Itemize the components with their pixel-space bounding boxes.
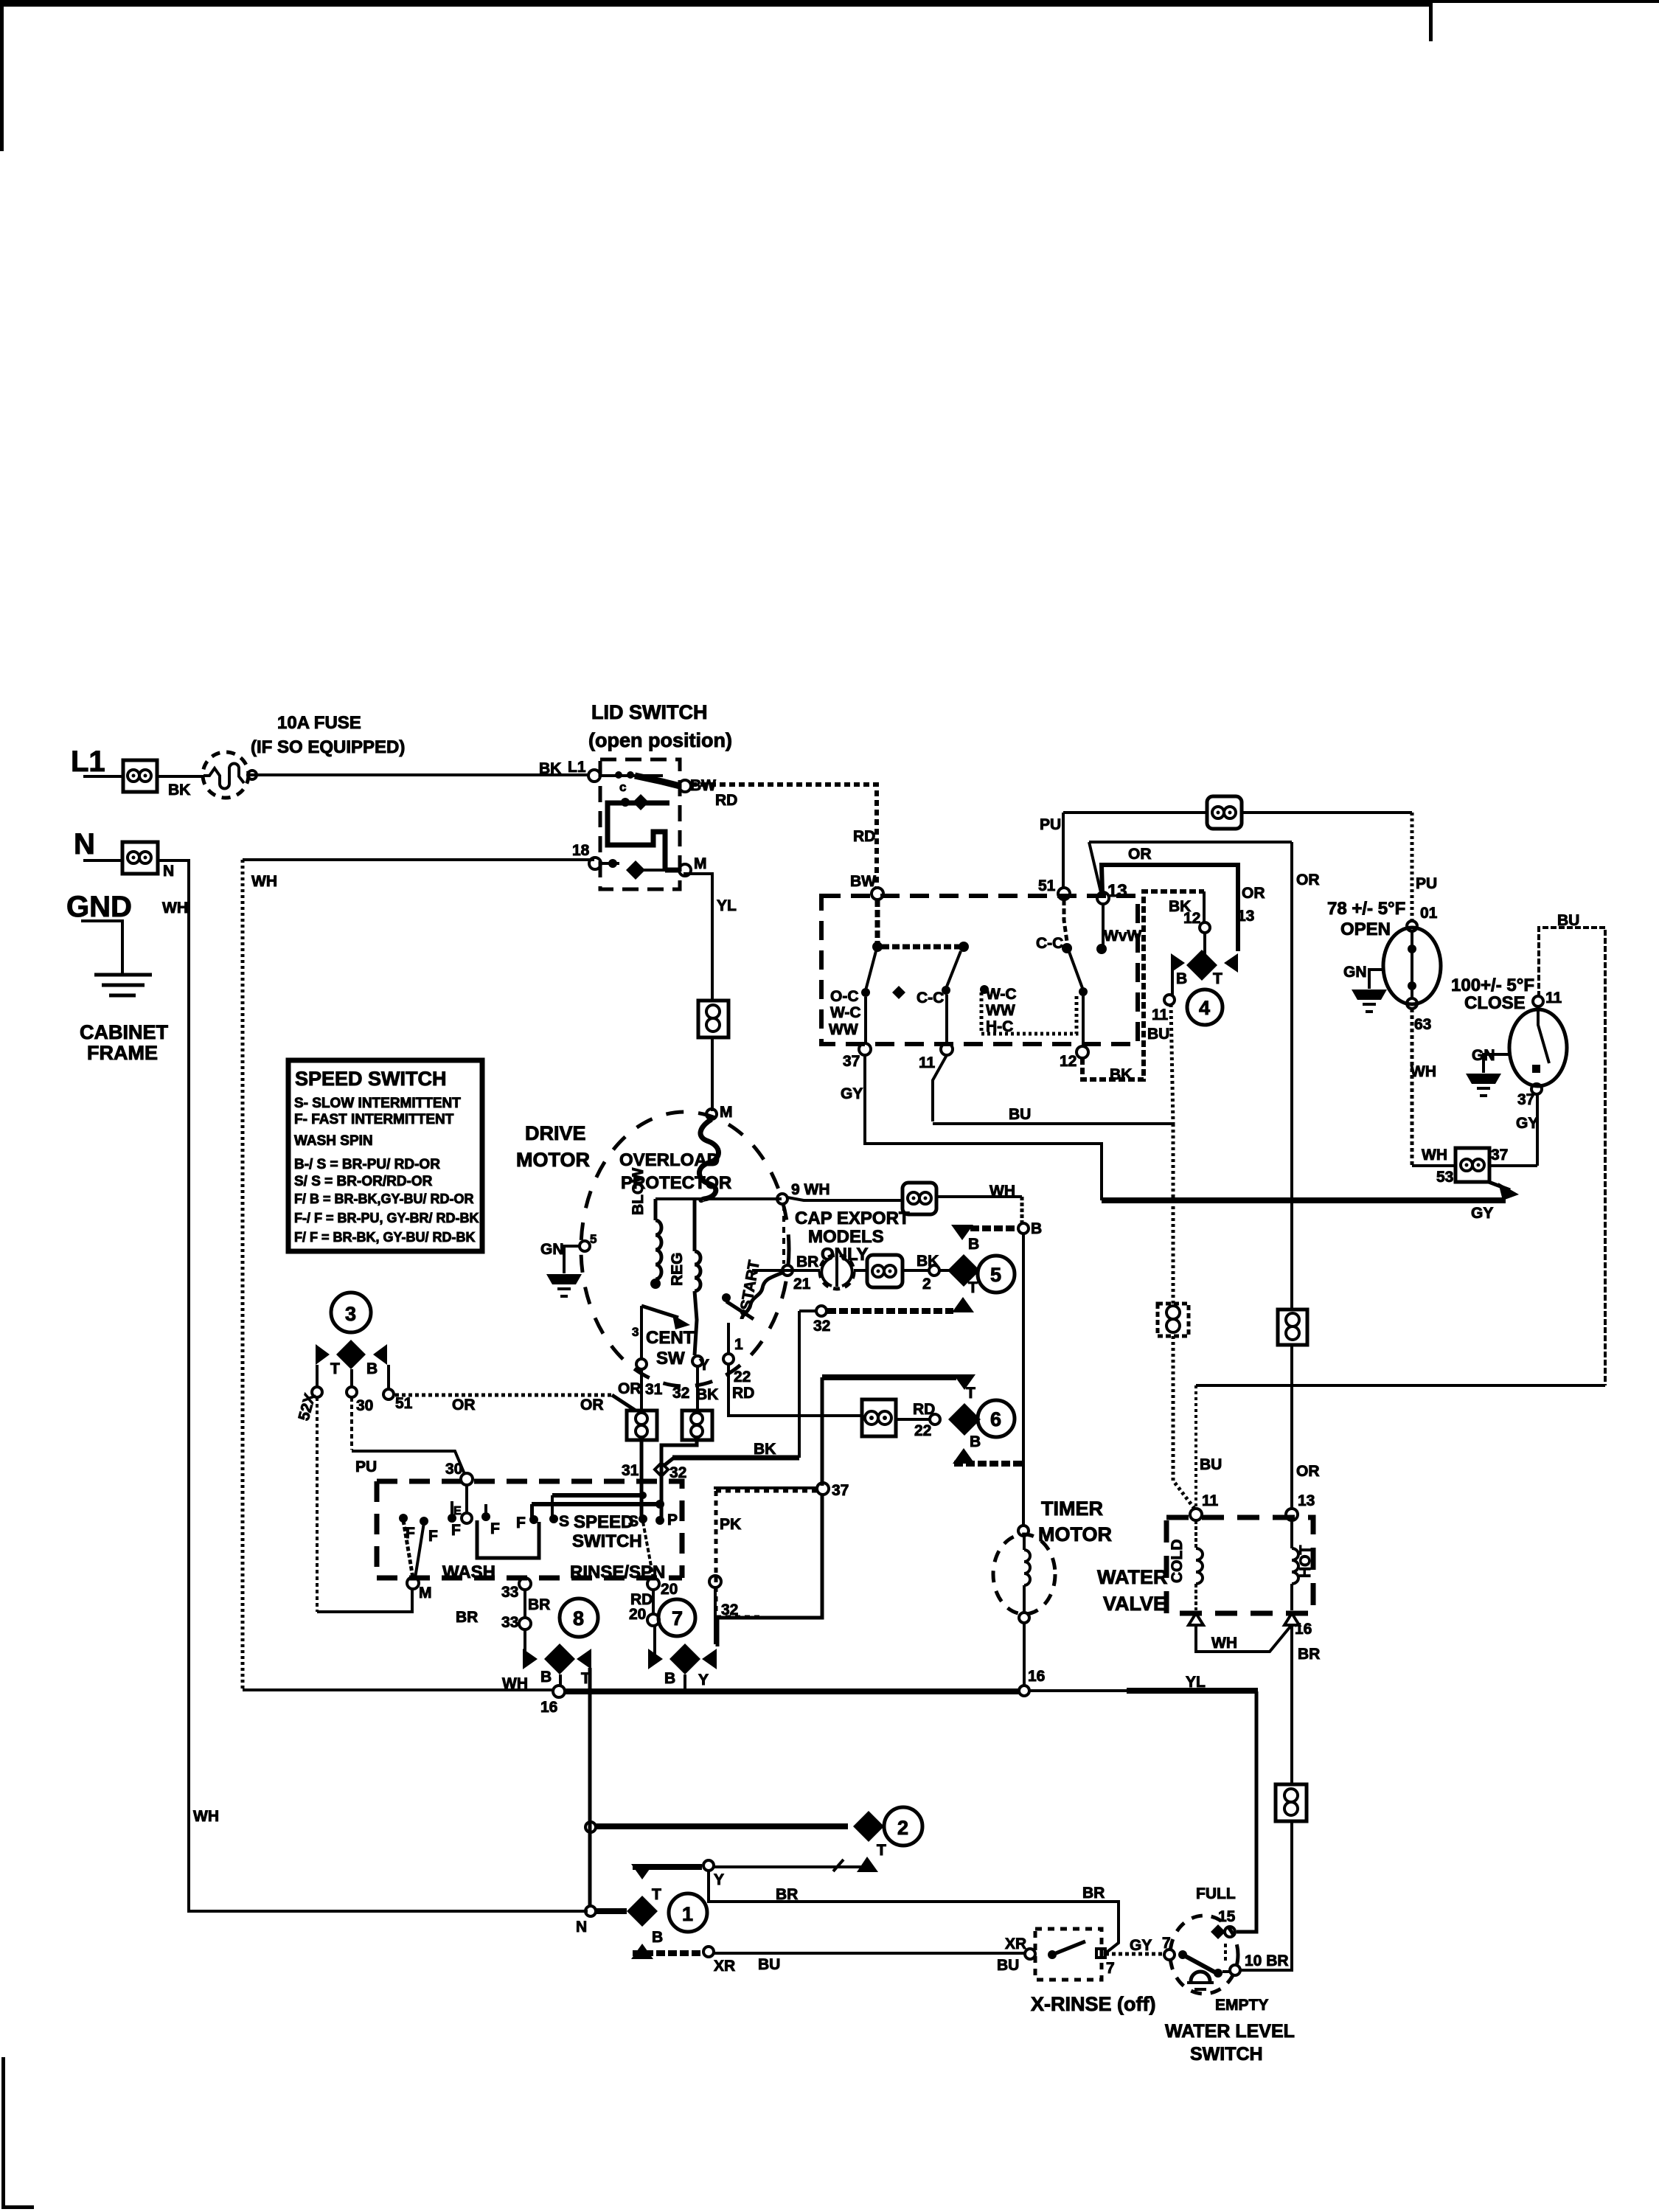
bridge wire xyxy=(477,1520,539,1558)
wire BU solenoid feed xyxy=(1194,1385,1197,1509)
page left border segment xyxy=(0,0,4,151)
svg-text:BU: BU xyxy=(1200,1456,1222,1473)
OR dotted line from diamond 3 xyxy=(395,1394,612,1397)
X-RINSE dashed box xyxy=(1035,1929,1102,1980)
svg-text:F: F xyxy=(451,1522,461,1539)
svg-text:11: 11 xyxy=(919,1054,936,1071)
wire BU dotted vertical xyxy=(1173,1124,1194,1509)
wire L1 lead xyxy=(83,775,123,778)
terminal 16 on bus xyxy=(553,1686,565,1697)
wire GY dotted xyxy=(1105,1952,1165,1956)
svg-text:32: 32 xyxy=(669,1464,686,1481)
connector C8a xyxy=(627,1411,657,1440)
timer motor dashed circle xyxy=(993,1534,1055,1614)
svg-text:GN: GN xyxy=(1343,964,1367,981)
ground for TH1 xyxy=(1369,970,1383,989)
triangle B above diamond 5 xyxy=(951,1225,973,1240)
contact F1 xyxy=(399,1514,408,1523)
svg-text:21: 21 xyxy=(793,1276,811,1293)
svg-text:BU: BU xyxy=(1147,1026,1169,1043)
wire BU horizontal to water valve xyxy=(1196,1384,1605,1387)
svg-text:PU: PU xyxy=(355,1458,377,1475)
svg-text:8: 8 xyxy=(573,1607,584,1630)
svg-text:7: 7 xyxy=(672,1607,683,1630)
svg-text:MOTOR: MOTOR xyxy=(516,1149,590,1171)
svg-text:WvW: WvW xyxy=(1104,928,1142,945)
water valve terminal 11 xyxy=(1190,1509,1202,1520)
svg-text:BK: BK xyxy=(1110,1066,1132,1083)
lid switch lower contact xyxy=(601,862,619,865)
wire bus thin segment xyxy=(1029,1689,1127,1692)
svg-text:GY: GY xyxy=(841,1085,863,1102)
svg-text:BU: BU xyxy=(1557,912,1579,929)
wire BU 11 jog xyxy=(933,1055,1173,1124)
svg-text:10A FUSE: 10A FUSE xyxy=(277,713,361,733)
diamond connector 6 xyxy=(948,1403,981,1436)
svg-text:MOTOR: MOTOR xyxy=(1038,1523,1112,1545)
svg-text:WASH SPIN: WASH SPIN xyxy=(294,1133,373,1149)
terminal 10 BR xyxy=(1230,1965,1240,1975)
wire 33 down xyxy=(524,1590,526,1619)
svg-text:DRIVE: DRIVE xyxy=(525,1122,586,1144)
svg-text:3: 3 xyxy=(345,1303,356,1325)
triangle right of diamond 3 xyxy=(373,1344,387,1365)
svg-text:B: B xyxy=(968,1236,979,1253)
terminal 51 xyxy=(1058,888,1070,900)
wire N to diamond 1 xyxy=(596,1908,627,1914)
svg-text:S: S xyxy=(628,1513,639,1530)
svg-text:E: E xyxy=(453,1505,462,1517)
wire 30 dotted to box edge xyxy=(350,1397,353,1450)
svg-text:15: 15 xyxy=(1218,1908,1236,1925)
page border tick xyxy=(1429,3,1433,41)
svg-text:37: 37 xyxy=(832,1482,849,1499)
svg-text:3: 3 xyxy=(632,1325,639,1339)
connector P7 on RD wire xyxy=(862,1399,896,1436)
open circle terminal at fuse output xyxy=(248,771,257,779)
wire riser diamond6T to 37 xyxy=(821,1377,824,1486)
svg-text:F: F xyxy=(516,1514,526,1531)
svg-text:WATER LEVEL: WATER LEVEL xyxy=(1165,2021,1295,2042)
svg-text:B: B xyxy=(664,1670,675,1687)
wire WH vertical left (N run down) xyxy=(189,859,588,1911)
wire diamond1 B dotted row xyxy=(633,1950,702,1956)
svg-text:COLD: COLD xyxy=(1169,1540,1186,1584)
svg-text:B: B xyxy=(1176,970,1187,987)
svg-text:O-C: O-C xyxy=(830,988,859,1005)
page top border line right thin xyxy=(1431,0,1659,3)
temp switch 51 contact arm xyxy=(1064,900,1068,947)
capacitor C1 dashed circle xyxy=(820,1255,854,1289)
contact F3 xyxy=(481,1512,490,1521)
X-RINSE contact xyxy=(1048,1950,1057,1959)
svg-text:1: 1 xyxy=(734,1336,743,1353)
water temperature switch dashed box xyxy=(821,896,1138,1044)
terminal B xyxy=(1018,1223,1029,1234)
wire BR branch xyxy=(709,1871,1119,1954)
wire YL thick segment xyxy=(1127,1688,1258,1694)
terminal 30 on box edge xyxy=(461,1473,473,1485)
svg-text:51: 51 xyxy=(395,1395,413,1412)
svg-text:12: 12 xyxy=(1060,1053,1077,1070)
triangle T above diamond 6 xyxy=(953,1374,975,1390)
svg-text:WH: WH xyxy=(1411,1063,1436,1080)
svg-text:51: 51 xyxy=(1038,877,1056,894)
wire BU bridge over TH2 xyxy=(1539,928,1605,1385)
svg-text:13: 13 xyxy=(1298,1492,1315,1509)
valve bottom terminal hot xyxy=(1284,1613,1299,1625)
svg-text:OR: OR xyxy=(1128,846,1152,863)
svg-text:T: T xyxy=(330,1360,340,1377)
lid switch terminal 18 xyxy=(589,858,601,869)
svg-text:F: F xyxy=(428,1528,438,1545)
circle 5 xyxy=(978,1256,1015,1293)
connector P1 (L1 terminal) xyxy=(123,760,157,792)
valve bottom terminal cold xyxy=(1189,1613,1203,1625)
svg-text:Y: Y xyxy=(714,1871,724,1888)
wire diamond7 to bus xyxy=(684,1674,686,1692)
wire BU dotted drop xyxy=(1171,1004,1173,1124)
wire GY path from 37 xyxy=(865,1055,1102,1200)
fuse F1 (10A, dashed circle) xyxy=(203,752,248,798)
svg-text:X-RINSE (off): X-RINSE (off) xyxy=(1031,1993,1155,2015)
diamond connector 3 xyxy=(336,1340,366,1369)
svg-text:FULL: FULL xyxy=(1196,1885,1236,1902)
thick line to diamond6 T xyxy=(822,1374,956,1380)
svg-text:6: 6 xyxy=(990,1408,1001,1430)
svg-text:F/ B = BR-BK,GY-BU/ RD-OR: F/ B = BR-BK,GY-BU/ RD-OR xyxy=(294,1192,474,1206)
circle 7 xyxy=(658,1599,695,1636)
svg-text:T: T xyxy=(968,1279,978,1296)
connector B3 on BR xyxy=(1276,1784,1307,1821)
svg-text:F: F xyxy=(490,1520,500,1537)
wire diamond8 T down through bus to N xyxy=(588,1668,592,1691)
svg-text:BR: BR xyxy=(796,1253,818,1270)
terminal M on box bottom xyxy=(407,1577,419,1589)
svg-text:M: M xyxy=(419,1585,432,1601)
svg-text:WW: WW xyxy=(986,1002,1015,1019)
contact 30 open xyxy=(462,1513,472,1523)
svg-text:WW: WW xyxy=(829,1021,858,1038)
wire RD dashed from lid switch xyxy=(691,785,877,888)
svg-text:SWITCH: SWITCH xyxy=(572,1531,642,1551)
svg-text:SWITCH: SWITCH xyxy=(1190,2044,1263,2065)
HOT solenoid xyxy=(1292,1520,1298,1610)
wire CENT SW 31 to connector xyxy=(640,1369,643,1411)
contact F4 xyxy=(529,1515,538,1524)
svg-text:16: 16 xyxy=(540,1699,557,1716)
svg-text:B: B xyxy=(366,1360,378,1377)
svg-text:WATER: WATER xyxy=(1097,1566,1168,1588)
terminal 13 xyxy=(1097,892,1109,904)
svg-text:10 BR: 10 BR xyxy=(1245,1952,1289,1969)
triangle left of diamond 7 xyxy=(648,1649,663,1669)
wire 20 to diamond7 xyxy=(653,1626,656,1656)
temp switch contact arm O-C xyxy=(866,951,876,990)
svg-text:TIMER: TIMER xyxy=(1041,1498,1103,1520)
svg-text:BLOW: BLOW xyxy=(630,1168,647,1215)
GY arrow to 53 connector xyxy=(1489,1182,1510,1190)
svg-text:CAP EXPORT: CAP EXPORT xyxy=(795,1208,910,1228)
lid switch terminal BW xyxy=(679,780,691,792)
wire 37 box edge xyxy=(714,1486,817,1489)
main bus bottom xyxy=(565,1688,1019,1694)
wire 33 to diamond8 xyxy=(524,1630,526,1656)
terminal 20 on box bottom xyxy=(647,1578,659,1590)
lid switch top contact wire xyxy=(600,774,663,777)
svg-text:12: 12 xyxy=(1183,910,1200,927)
circle 2 xyxy=(884,1807,922,1846)
svg-text:BR: BR xyxy=(456,1609,478,1626)
svg-text:RD: RD xyxy=(853,828,875,845)
dashed cap-export link xyxy=(782,1205,785,1264)
svg-text:REG: REG xyxy=(669,1252,686,1286)
temp switch selector bar xyxy=(877,900,964,947)
wire YL continues to motor xyxy=(711,1037,714,1111)
wire to diamond2 T xyxy=(714,1860,867,1867)
svg-text:SPEED: SPEED xyxy=(574,1512,633,1532)
connector B2 on OR xyxy=(1278,1310,1307,1345)
wire 30 into box xyxy=(465,1485,468,1513)
lid switch terminal L1 xyxy=(588,770,600,782)
svg-text:BK: BK xyxy=(696,1386,718,1403)
svg-text:SPEED SWITCH: SPEED SWITCH xyxy=(295,1068,447,1090)
wire 37 drop xyxy=(864,997,867,1044)
wire 32 to diamond7 Y xyxy=(714,1587,717,1644)
svg-text:(IF SO EQUIPPED): (IF SO EQUIPPED) xyxy=(251,737,405,757)
svg-text:63: 63 xyxy=(1414,1016,1431,1033)
svg-text:EMPTY: EMPTY xyxy=(1215,1997,1268,2014)
terminal 33b xyxy=(519,1618,531,1630)
svg-text:CENT: CENT xyxy=(646,1328,695,1348)
lid switch terminal M xyxy=(665,868,679,873)
wire BU from diamond 4 B xyxy=(1171,963,1174,995)
wire 31 from connector down xyxy=(640,1440,644,1519)
svg-text:RD: RD xyxy=(732,1385,754,1402)
svg-text:S- SLOW INTERMITTENT: S- SLOW INTERMITTENT xyxy=(294,1096,461,1111)
svg-text:GY: GY xyxy=(1516,1115,1538,1132)
ground for motor xyxy=(564,1246,580,1273)
terminal 32 xyxy=(816,1306,827,1316)
diamond 32 marker xyxy=(655,1463,668,1476)
svg-text:BU: BU xyxy=(758,1956,780,1973)
triangle T below diamond 2 xyxy=(857,1857,878,1872)
fuse element xyxy=(204,764,244,789)
connector P5 on WH wire xyxy=(902,1183,936,1214)
contact arm to 12 xyxy=(1069,952,1082,988)
svg-text:Y: Y xyxy=(698,1672,709,1688)
terminal 9 xyxy=(777,1194,787,1204)
diamond connector 2 xyxy=(853,1811,884,1842)
water level switch dashed circle xyxy=(1170,1916,1238,1994)
svg-text:GND: GND xyxy=(66,891,132,923)
thick jag line to diamond5 B triangle xyxy=(959,1225,1018,1231)
svg-text:PU: PU xyxy=(1040,816,1061,833)
terminal Y xyxy=(692,1356,703,1366)
svg-text:W-C: W-C xyxy=(986,986,1017,1003)
svg-text:T: T xyxy=(1213,970,1222,987)
diamond connector 1 xyxy=(627,1896,658,1927)
page top border line xyxy=(0,0,1431,7)
lid switch inner Z link xyxy=(608,803,669,869)
svg-text:T: T xyxy=(877,1842,886,1859)
svg-text:S: S xyxy=(559,1513,569,1530)
wire BR 21 row xyxy=(752,1269,952,1272)
svg-text:22: 22 xyxy=(914,1422,931,1439)
wire timer feed xyxy=(1022,1234,1025,1526)
triangle T (diamond 4) xyxy=(1224,953,1238,973)
connector P2 (N terminal) xyxy=(122,842,158,874)
wire BU to X-RINSE xyxy=(714,1952,1025,1955)
svg-text:B-/ S = BR-PU/ RD-OR: B-/ S = BR-PU/ RD-OR xyxy=(294,1157,440,1172)
wire N to WH vertical xyxy=(158,859,189,862)
svg-text:YL: YL xyxy=(717,897,737,914)
wire N lead xyxy=(83,859,122,862)
circle 4 xyxy=(1187,990,1222,1025)
float symbol xyxy=(1191,1972,1210,1981)
dashes between contacts xyxy=(1224,1944,1227,1961)
svg-text:XR: XR xyxy=(1005,1935,1026,1952)
wire BK drop to diamond4 xyxy=(1203,891,1206,922)
wire PU horizontal run xyxy=(1063,811,1412,814)
svg-text:BU: BU xyxy=(1009,1106,1031,1123)
svg-text:2: 2 xyxy=(922,1276,931,1293)
CENT SW contact xyxy=(640,1306,643,1359)
svg-text:GN: GN xyxy=(540,1241,564,1258)
wire OR hook to 13 xyxy=(1089,842,1101,892)
wire 52X drop xyxy=(316,1365,319,1387)
svg-text:OR: OR xyxy=(1242,885,1265,902)
diamond connector 8 xyxy=(544,1644,575,1674)
wire BK thick horizontal xyxy=(672,1455,799,1461)
connector C8c dashed on BU xyxy=(1158,1304,1189,1336)
svg-text:16: 16 xyxy=(1295,1621,1312,1638)
temp switch 13 contact arm xyxy=(1102,904,1105,945)
slash mark xyxy=(833,1860,844,1871)
svg-text:WH: WH xyxy=(251,873,277,890)
wire WH from TH1 down xyxy=(1411,1009,1414,1166)
svg-text:P: P xyxy=(667,1512,678,1528)
connector P3 on PU wire xyxy=(1207,796,1242,829)
terminal 12b xyxy=(1200,922,1210,933)
wire dotted from diamond6 B to timer line xyxy=(954,1461,1023,1467)
water valve terminal 13 xyxy=(1286,1509,1298,1520)
lid switch S1 dashed box xyxy=(600,759,680,889)
wire 51 from diamond3 B xyxy=(387,1365,390,1389)
circle 6 xyxy=(978,1400,1015,1437)
svg-text:22: 22 xyxy=(734,1368,751,1385)
thermostat TH2 bottom terminal xyxy=(1531,1084,1542,1094)
wire OR horizontal run xyxy=(1089,841,1292,844)
svg-text:OPEN: OPEN xyxy=(1340,919,1391,939)
REG winding xyxy=(695,1199,700,1355)
svg-text:53: 53 xyxy=(1436,1169,1453,1186)
triangle T above diamond 1 xyxy=(631,1864,653,1879)
svg-text:01: 01 xyxy=(1420,905,1438,922)
wire 52X dotted down to M xyxy=(316,1397,319,1612)
wire timer to bus xyxy=(1023,1623,1026,1687)
contact S1 xyxy=(549,1514,558,1523)
svg-text:C-C: C-C xyxy=(1036,935,1063,952)
svg-text:16: 16 xyxy=(1028,1668,1045,1685)
svg-text:START: START xyxy=(737,1259,763,1312)
triangle B (diamond 4) xyxy=(1171,953,1185,973)
svg-text:GY: GY xyxy=(1130,1937,1152,1954)
svg-text:37: 37 xyxy=(1517,1091,1534,1108)
circle 3 xyxy=(331,1293,371,1332)
timer top terminal xyxy=(1018,1526,1029,1536)
dotted bracket around W-C WW H-C xyxy=(981,992,1077,1034)
ground for TH2 xyxy=(1484,1054,1509,1073)
terminal BW into temp switch xyxy=(872,888,883,900)
terminal 7 xyxy=(1164,1950,1175,1960)
wire RD from start switch xyxy=(728,1364,929,1419)
wire down right edge of PK box xyxy=(717,1495,822,1646)
svg-text:N: N xyxy=(74,828,95,860)
lid switch top contact arm xyxy=(635,776,680,786)
water valve dashed box xyxy=(1166,1517,1313,1613)
svg-text:WH: WH xyxy=(162,900,188,917)
svg-text:B: B xyxy=(540,1669,552,1686)
svg-text:BR: BR xyxy=(776,1886,798,1903)
triangle left of diamond 8 xyxy=(523,1649,538,1669)
svg-text:M: M xyxy=(694,855,707,872)
svg-text:FRAME: FRAME xyxy=(87,1042,158,1064)
timer bottom terminal xyxy=(1019,1613,1029,1623)
svg-text:5: 5 xyxy=(990,1264,1001,1286)
svg-text:30: 30 xyxy=(356,1397,373,1414)
terminal N xyxy=(585,1906,596,1916)
terminal 2 xyxy=(929,1265,939,1276)
overload protector squiggle xyxy=(699,1119,718,1200)
wire 11 drop xyxy=(945,995,948,1044)
svg-text:BR: BR xyxy=(1082,1885,1105,1902)
wire Y 32 to connector xyxy=(696,1366,699,1411)
svg-text:F/ F = BR-BK, GY-BU/ RD-BK: F/ F = BR-BK, GY-BU/ RD-BK xyxy=(294,1230,476,1245)
svg-text:OVERLOAD: OVERLOAD xyxy=(619,1150,720,1170)
svg-text:N: N xyxy=(576,1919,587,1935)
thermostat TH2 contact arm xyxy=(1538,1006,1549,1063)
svg-text:BW: BW xyxy=(850,873,876,890)
svg-text:78 +/- 5°F: 78 +/- 5°F xyxy=(1327,899,1405,919)
terminal 11 xyxy=(941,1043,953,1055)
page bottom-left border segment xyxy=(1,2057,5,2209)
svg-text:11: 11 xyxy=(1202,1492,1219,1509)
svg-text:31: 31 xyxy=(622,1462,639,1479)
svg-text:YL: YL xyxy=(1186,1674,1206,1691)
svg-text:B: B xyxy=(970,1433,981,1450)
svg-text:T: T xyxy=(652,1886,661,1903)
terminal 12 xyxy=(1077,1046,1088,1058)
contact dot on bracket xyxy=(980,985,989,994)
connector P6 on 21 wire xyxy=(867,1255,902,1287)
svg-text:WH: WH xyxy=(1211,1635,1237,1652)
svg-text:H-C: H-C xyxy=(986,1018,1013,1035)
wire BK U-path from 12 xyxy=(1082,891,1204,1079)
FULL contact xyxy=(1225,1927,1235,1937)
svg-text:32: 32 xyxy=(672,1385,689,1402)
COLD solenoid xyxy=(1194,1520,1197,1610)
svg-text:WH: WH xyxy=(193,1808,219,1825)
junction circle xyxy=(585,1822,596,1832)
wire YL from lid switch M down to motor xyxy=(685,874,712,1001)
svg-text:OR: OR xyxy=(1296,872,1320,888)
svg-text:WH: WH xyxy=(1422,1147,1447,1164)
triangle B below diamond 1 xyxy=(631,1944,653,1959)
motor terminal M top xyxy=(706,1109,717,1119)
svg-text:37: 37 xyxy=(1491,1147,1508,1164)
page bottom-left border foot xyxy=(1,2205,34,2209)
